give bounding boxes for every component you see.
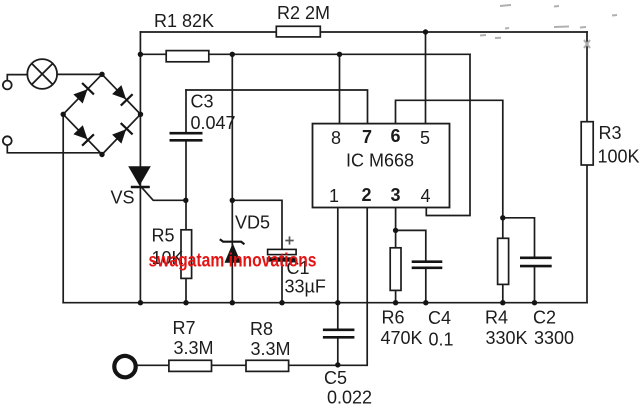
capacitor C4 — [412, 262, 443, 268]
svg-text:R2 2M: R2 2M — [277, 3, 330, 23]
resistor R6 — [390, 248, 401, 291]
wire C2 to bus — [534, 266, 536, 303]
terminal 2 — [3, 136, 12, 145]
resistor R5 — [181, 230, 192, 279]
wire pin4 route — [426, 54, 470, 215]
wire line B (R1 rail) — [140, 53, 470, 55]
wire pin8 drop — [339, 54, 341, 123]
resistor R3 — [581, 122, 593, 165]
svg-text:470K: 470K — [381, 328, 423, 348]
wire main left vertical (VS anode line) — [139, 32, 141, 303]
svg-text:3.3M: 3.3M — [251, 339, 291, 359]
svg-text:R3: R3 — [599, 123, 622, 143]
wire C4 to bus — [425, 268, 427, 303]
svg-text:C2: C2 — [533, 308, 556, 328]
wire pin1 to C5 — [337, 208, 339, 330]
capacitor C2 — [520, 258, 552, 266]
wire pin5 drop — [425, 32, 427, 124]
diode D1 bridge top-left — [73, 83, 94, 104]
svg-text:5: 5 — [420, 128, 430, 148]
resistor R2 — [276, 26, 320, 37]
wire pin2 to touch network — [138, 208, 368, 366]
svg-text:7: 7 — [362, 127, 372, 147]
wire line A top (R2 rail) — [140, 31, 587, 33]
svg-text:33µF: 33µF — [285, 277, 326, 297]
capacitor C5 — [323, 330, 355, 338]
wire C3/R5 vertical upper — [185, 90, 187, 133]
zener VD5 — [220, 239, 245, 263]
svg-text:VS: VS — [111, 188, 135, 208]
svg-text:6: 6 — [391, 126, 401, 146]
terminal 1 — [3, 81, 12, 90]
wire VD5 vertical — [231, 54, 233, 302]
IC U1 M668 box — [313, 124, 450, 208]
svg-text:VD5: VD5 — [235, 213, 270, 233]
wire pin6 to R4 — [396, 100, 503, 302]
thyristor VS — [128, 166, 151, 187]
svg-text:R7: R7 — [173, 318, 196, 338]
scan smudges top right — [480, 5, 617, 48]
svg-text:R5: R5 — [152, 226, 175, 246]
wire C1 branch — [232, 200, 282, 249]
svg-text:0.1: 0.1 — [429, 330, 454, 350]
wire bridge diamond — [63, 74, 140, 154]
resistor R4 — [498, 238, 509, 284]
wire C3/R5 vertical lower — [185, 140, 187, 302]
svg-text:R4: R4 — [485, 308, 508, 328]
wire right vertical to R3 — [586, 32, 588, 303]
svg-text:swagatam innovations: swagatam innovations — [149, 251, 317, 272]
diode D3 bridge bottom-left — [73, 125, 94, 146]
svg-text:1: 1 — [329, 186, 339, 206]
diode D4 bridge bottom-right — [112, 123, 133, 144]
svg-text:8: 8 — [331, 128, 341, 148]
svg-text:R1 82K: R1 82K — [154, 11, 214, 31]
svg-text:R8: R8 — [250, 319, 273, 339]
wire lamp to bridge — [57, 73, 102, 75]
svg-text:3300: 3300 — [534, 328, 574, 348]
svg-text:C3: C3 — [191, 92, 214, 112]
capacitor C3 — [170, 133, 203, 140]
wire C1 to bus — [281, 262, 283, 303]
wire C2 branch — [503, 218, 535, 258]
wire bridge minus vertical — [62, 114, 64, 302]
capacitor C1 electrolytic — [267, 236, 297, 261]
wire VS gate — [143, 189, 186, 201]
svg-text:C4: C4 — [428, 308, 451, 328]
wire C4 branch — [396, 230, 426, 261]
svg-text:IC M668: IC M668 — [346, 151, 414, 171]
touch plate electrode — [114, 356, 135, 377]
svg-text:330K: 330K — [486, 328, 528, 348]
resistor R8 — [246, 360, 289, 371]
diode D2 bridge top-right — [112, 85, 133, 106]
svg-text:2: 2 — [362, 185, 372, 205]
wire C5 to bottom node — [337, 338, 339, 366]
svg-text:C5: C5 — [324, 368, 347, 388]
lamp — [27, 59, 57, 89]
svg-text:100K: 100K — [598, 147, 640, 167]
svg-text:0.047: 0.047 — [191, 113, 236, 133]
wire C3 to pin7 — [186, 90, 368, 124]
wire pin3/R6 vertical — [395, 208, 397, 303]
wire AC input bottom — [7, 145, 101, 153]
svg-text:R6: R6 — [382, 308, 405, 328]
svg-text:4: 4 — [421, 186, 431, 206]
wire bottom bus — [63, 302, 587, 304]
resistor R1 — [166, 51, 209, 62]
wire AC input top — [7, 75, 27, 81]
resistor R7 — [169, 360, 212, 371]
svg-text:3: 3 — [391, 185, 401, 205]
svg-text:0.022: 0.022 — [327, 388, 372, 408]
svg-text:3.3M: 3.3M — [174, 338, 214, 358]
